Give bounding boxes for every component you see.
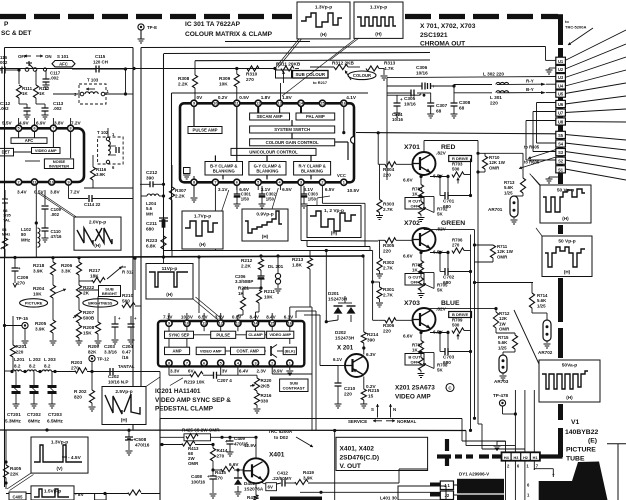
svg-text:COLOUR MATRIX & CLAMP: COLOUR MATRIX & CLAMP — [185, 31, 273, 38]
svg-text:R313: R313 — [384, 61, 396, 66]
svg-text:R222: R222 — [83, 285, 95, 290]
svg-text:R310: R310 — [246, 72, 258, 77]
svg-text:6: 6 — [236, 181, 238, 185]
svg-text:R309: R309 — [219, 76, 231, 81]
svg-text:6.6V: 6.6V — [229, 462, 239, 467]
svg-text:1.8V: 1.8V — [261, 95, 272, 100]
svg-text:D202: D202 — [335, 330, 346, 335]
svg-text:1.1Vp-p: 1.1Vp-p — [370, 5, 387, 11]
svg-text:S2: S2 — [558, 159, 564, 164]
svg-text:12: 12 — [256, 102, 260, 106]
svg-text:9: 9 — [168, 322, 170, 326]
svg-text:1: 1 — [343, 181, 345, 185]
svg-text:R419: R419 — [303, 470, 314, 475]
svg-text:X702: X702 — [404, 220, 420, 227]
svg-text:6.6V: 6.6V — [403, 334, 414, 339]
svg-text:2.3V: 2.3V — [257, 369, 267, 374]
svg-text:2K: 2K — [83, 291, 90, 296]
svg-text:R210: R210 — [122, 293, 134, 298]
svg-text:390: 390 — [367, 338, 375, 343]
svg-text:C114 22: C114 22 — [84, 202, 101, 207]
svg-text:U6: U6 — [558, 102, 564, 107]
svg-text:TUBE: TUBE — [566, 456, 585, 463]
svg-text:6: 6 — [33, 127, 35, 131]
svg-text:MH: MH — [146, 211, 153, 216]
svg-text:VIDEO AMP: VIDEO AMP — [35, 148, 57, 153]
svg-text:4.9V: 4.9V — [19, 121, 30, 126]
svg-text:220: 220 — [383, 249, 391, 254]
svg-text:PULSE AMP: PULSE AMP — [193, 128, 218, 133]
svg-text:2.0Vp-p: 2.0Vp-p — [89, 220, 106, 226]
svg-text:X701: X701 — [404, 144, 420, 151]
svg-text:IC 301 TA 7622AP: IC 301 TA 7622AP — [185, 21, 241, 28]
svg-text:220: 220 — [490, 101, 498, 106]
svg-text:VIDEO AMP SYNC SEP &: VIDEO AMP SYNC SEP & — [155, 397, 231, 404]
svg-text:680: 680 — [146, 227, 154, 232]
svg-text:R307: R307 — [175, 188, 187, 193]
svg-text:7: 7 — [214, 181, 216, 185]
svg-text:X 201: X 201 — [337, 345, 354, 352]
svg-text:270: 270 — [217, 453, 225, 458]
svg-text:P: P — [4, 21, 9, 28]
svg-text:X703: X703 — [404, 300, 420, 307]
svg-text:B DRIVE: B DRIVE — [452, 312, 469, 317]
svg-text:CONTRAST: CONTRAST — [283, 385, 306, 390]
svg-text:R217: R217 — [89, 268, 101, 273]
svg-text:BLANKING: BLANKING — [213, 168, 235, 173]
svg-text:5.3MHz: 5.3MHz — [5, 419, 22, 424]
svg-text:R305: R305 — [383, 243, 395, 248]
svg-text:BRIGHT: BRIGHT — [102, 291, 118, 296]
svg-text:6.5MHz: 6.5MHz — [47, 419, 64, 424]
svg-text:11: 11 — [202, 322, 206, 326]
svg-text:002: 002 — [0, 60, 8, 65]
svg-text:to D02: to D02 — [274, 435, 288, 440]
svg-text:10/16: 10/16 — [416, 71, 428, 76]
svg-text:UNICOLOUR CONTROL: UNICOLOUR CONTROL — [249, 149, 298, 154]
svg-text:C701: C701 — [443, 199, 455, 204]
svg-text:5.5V: 5.5V — [2, 121, 13, 126]
svg-text:C508: C508 — [135, 437, 147, 442]
svg-text:AR702: AR702 — [538, 350, 553, 355]
svg-text:5: 5 — [220, 361, 222, 365]
svg-text:C307: C307 — [436, 103, 448, 108]
svg-text:6.5V: 6.5V — [282, 187, 293, 192]
svg-text:1: 1 — [289, 361, 291, 365]
svg-text:(H): (H) — [262, 234, 269, 239]
svg-text:1K: 1K — [39, 91, 45, 96]
svg-text:C703: C703 — [443, 355, 455, 360]
svg-text:270: 270 — [17, 281, 25, 286]
svg-text:R208: R208 — [83, 325, 95, 330]
svg-text:R209: R209 — [88, 344, 99, 349]
svg-text:3: 3 — [254, 361, 256, 365]
svg-text:10K: 10K — [33, 292, 42, 297]
svg-text:11: 11 — [235, 102, 239, 106]
svg-text:X401, X402: X401, X402 — [340, 446, 375, 453]
svg-text:0.47: 0.47 — [122, 349, 131, 354]
svg-text:50Va-p: 50Va-p — [562, 363, 578, 369]
svg-text:S3: S3 — [558, 150, 564, 155]
svg-text:to R606: to R606 — [524, 160, 540, 165]
svg-text:(H): (H) — [375, 31, 382, 36]
svg-text:H3: H3 — [513, 456, 518, 460]
svg-text:12: 12 — [219, 322, 223, 326]
svg-text:BLUE: BLUE — [441, 300, 460, 307]
svg-text:220: 220 — [16, 350, 24, 355]
svg-text:500B: 500B — [83, 316, 95, 321]
svg-text:VCC: VCC — [337, 173, 346, 178]
svg-text:5K: 5K — [437, 212, 443, 217]
svg-text:R207: R207 — [83, 310, 95, 315]
svg-text:T 102: T 102 — [97, 130, 109, 135]
svg-text:5: 5 — [18, 127, 20, 131]
svg-text:R415: R415 — [215, 470, 226, 475]
svg-text:8: 8 — [70, 127, 72, 131]
svg-text:7.2V: 7.2V — [70, 190, 81, 195]
svg-text:2: 2 — [321, 181, 323, 185]
svg-text:H1: H1 — [533, 456, 538, 460]
svg-text:2SD476(C.D): 2SD476(C.D) — [340, 455, 380, 462]
svg-text:DET: DET — [2, 150, 11, 155]
svg-text:(H): (H) — [566, 395, 573, 400]
svg-text:PICTURE: PICTURE — [566, 447, 596, 454]
svg-text:3.9K: 3.9K — [33, 269, 44, 274]
svg-text:.002: .002 — [53, 106, 62, 111]
svg-text:6: 6 — [203, 361, 205, 365]
svg-text:MHz: MHz — [21, 237, 31, 242]
svg-text:S4: S4 — [558, 142, 564, 147]
svg-text:AFC: AFC — [25, 138, 34, 143]
svg-text:(E): (E) — [588, 438, 597, 445]
svg-text:R205: R205 — [35, 321, 47, 326]
svg-text:470/16: 470/16 — [135, 443, 150, 448]
svg-text:(H): (H) — [121, 418, 128, 423]
svg-text:120 CH: 120 CH — [93, 60, 108, 65]
svg-text:4.1V: 4.1V — [346, 95, 357, 100]
svg-text:SYNC SEP: SYNC SEP — [169, 332, 190, 337]
svg-text:(BLK): (BLK) — [285, 349, 296, 353]
svg-text:S: S — [371, 407, 374, 412]
svg-text:8.4V: 8.4V — [266, 315, 276, 320]
svg-text:1/25: 1/25 — [537, 303, 546, 308]
svg-text:270: 270 — [246, 77, 254, 82]
svg-text:V. OUT: V. OUT — [340, 463, 361, 470]
svg-text:SECAM AMP: SECAM AMP — [256, 114, 282, 119]
svg-text:RED: RED — [441, 144, 455, 151]
svg-text:L 202: L 202 — [29, 357, 41, 362]
svg-text:0.5V: 0.5V — [34, 190, 45, 195]
svg-text:330: 330 — [261, 398, 269, 403]
svg-text:500: 500 — [452, 167, 460, 172]
svg-text:C702: C702 — [443, 275, 455, 280]
svg-text:R212: R212 — [241, 258, 253, 263]
svg-text:R301: R301 — [383, 287, 395, 292]
svg-text:C209: C209 — [17, 275, 29, 280]
svg-text:15: 15 — [320, 102, 324, 106]
svg-text:(H): (H) — [94, 243, 101, 248]
svg-text:R211: R211 — [264, 289, 275, 294]
svg-text:8.2: 8.2 — [29, 364, 36, 369]
svg-text:S5: S5 — [558, 133, 564, 138]
svg-text:R216: R216 — [261, 393, 272, 398]
svg-text:100/16: 100/16 — [191, 479, 205, 484]
svg-text:TP-15: TP-15 — [16, 316, 29, 321]
svg-text:+: + — [432, 84, 435, 89]
svg-text:390: 390 — [146, 176, 154, 181]
svg-text:3.8V: 3.8V — [50, 190, 61, 195]
svg-text:3: 3 — [300, 181, 302, 185]
svg-text:BLANKING: BLANKING — [301, 168, 323, 173]
svg-text:2KB: 2KB — [261, 383, 271, 388]
svg-text:12.9V: 12.9V — [244, 443, 257, 448]
svg-text:R303: R303 — [383, 202, 395, 207]
svg-text:(H): (H) — [166, 292, 173, 297]
svg-text:/16: /16 — [122, 355, 129, 360]
svg-text:1K: 1K — [412, 268, 418, 273]
svg-text:.82V: .82V — [436, 151, 447, 157]
svg-text:R304: R304 — [383, 167, 395, 172]
svg-text:0V: 0V — [197, 95, 204, 100]
svg-text:U7: U7 — [558, 111, 564, 116]
svg-text:10K: 10K — [219, 82, 228, 87]
svg-text:R414: R414 — [217, 448, 228, 453]
svg-text:10/16: 10/16 — [392, 117, 404, 122]
svg-text:16: 16 — [288, 322, 292, 326]
svg-text:11: 11 — [32, 180, 36, 184]
svg-text:TP-12: TP-12 — [97, 357, 110, 362]
svg-text:6.6V: 6.6V — [403, 254, 414, 259]
svg-text:U8: U8 — [558, 120, 564, 125]
svg-text:10: 10 — [185, 322, 189, 326]
svg-text:PICTURE: PICTURE — [25, 301, 43, 306]
svg-text:680: 680 — [443, 360, 451, 365]
svg-text:3.3/16: 3.3/16 — [104, 349, 117, 354]
svg-text:DY1 A29906-V: DY1 A29906-V — [459, 472, 489, 477]
svg-text:OFF: OFF — [411, 203, 420, 208]
svg-text:C405: C405 — [12, 495, 23, 500]
svg-text:16: 16 — [342, 102, 346, 106]
svg-text:8: 8 — [168, 361, 170, 365]
svg-text:INVERTER: INVERTER — [49, 164, 69, 169]
svg-text:500: 500 — [452, 323, 460, 328]
svg-text:.22/50MY: .22/50MY — [272, 476, 292, 481]
svg-text:TANTAL: TANTAL — [118, 364, 135, 369]
svg-text:5: 5 — [257, 181, 259, 185]
svg-text:10/16: 10/16 — [404, 102, 416, 107]
svg-text:CLAMP: CLAMP — [248, 332, 263, 337]
svg-text:6.8K: 6.8K — [146, 244, 157, 249]
svg-text:140BYB22: 140BYB22 — [565, 429, 598, 436]
svg-text:5K: 5K — [437, 288, 443, 293]
svg-text:B-Y: B-Y — [526, 87, 534, 92]
svg-text:50 Vp-p: 50 Vp-p — [558, 239, 575, 245]
svg-text:22K: 22K — [10, 472, 19, 477]
svg-text:COLOUR GAIN CONTROL: COLOUR GAIN CONTROL — [266, 140, 319, 145]
svg-text:TRC 5200A: TRC 5200A — [268, 429, 293, 434]
svg-text:R 312: R 312 — [122, 270, 134, 275]
svg-text:TAL: TAL — [3, 217, 11, 222]
svg-text:2: 2 — [271, 361, 273, 365]
svg-text:1.3Vp-p: 1.3Vp-p — [315, 5, 332, 11]
svg-text:SUB COLOUR: SUB COLOUR — [295, 72, 325, 77]
svg-text:C202: C202 — [108, 374, 119, 379]
svg-text:6.5V: 6.5V — [433, 174, 444, 179]
svg-text:2.7K: 2.7K — [383, 293, 394, 298]
svg-text:(H): (H) — [331, 231, 338, 236]
svg-text:82K: 82K — [88, 349, 97, 354]
svg-text:R306: R306 — [383, 323, 395, 328]
svg-text:R223: R223 — [146, 238, 158, 243]
svg-text:13: 13 — [277, 102, 281, 106]
svg-text:- 4.5V: - 4.5V — [68, 455, 82, 461]
svg-text:8: 8 — [193, 181, 195, 185]
svg-text:CT202: CT202 — [27, 412, 41, 417]
svg-text:L 301: L 301 — [490, 95, 502, 100]
svg-text:2.7K: 2.7K — [383, 207, 394, 212]
svg-text:PULSE: PULSE — [216, 332, 230, 337]
svg-text:C203: C203 — [104, 344, 115, 349]
svg-text:.002: .002 — [0, 106, 9, 111]
svg-text:2.5Vp-p: 2.5Vp-p — [115, 389, 132, 395]
svg-text:SERVICE: SERVICE — [348, 419, 367, 424]
svg-text:H2: H2 — [523, 456, 528, 460]
svg-text:1K: 1K — [412, 348, 418, 353]
svg-text:R214: R214 — [367, 332, 379, 337]
svg-text:15: 15 — [270, 322, 274, 326]
svg-text:3.3/50BP: 3.3/50BP — [235, 279, 253, 284]
svg-text:8.2: 8.2 — [44, 364, 51, 369]
svg-text:1S2473H: 1S2473H — [335, 335, 355, 340]
svg-text:VIDEO AMP: VIDEO AMP — [200, 348, 222, 353]
svg-text:1/50: 1/50 — [308, 196, 317, 201]
svg-text:3.3V: 3.3V — [170, 369, 180, 374]
svg-text:10.3V: 10.3V — [181, 315, 194, 320]
svg-text:6.9V: 6.9V — [36, 121, 47, 126]
svg-text:TRC-5200A: TRC-5200A — [565, 25, 586, 30]
svg-text:TP-478: TP-478 — [493, 393, 509, 398]
svg-text:3.9K: 3.9K — [35, 327, 46, 332]
svg-text:C409: C409 — [234, 436, 245, 441]
svg-text:R220: R220 — [261, 378, 272, 383]
svg-text:1K: 1K — [238, 291, 245, 296]
svg-text:2.7K: 2.7K — [383, 266, 394, 271]
svg-text:C306: C306 — [416, 65, 428, 70]
svg-text:OMR: OMR — [499, 327, 510, 332]
svg-text:2SC1921: 2SC1921 — [420, 32, 448, 39]
svg-text:S 101: S 101 — [57, 54, 69, 59]
svg-text:.002: .002 — [50, 76, 59, 81]
svg-text:GREEN: GREEN — [441, 220, 465, 227]
svg-text:R308: R308 — [178, 76, 190, 81]
svg-text:220: 220 — [383, 329, 391, 334]
svg-text:6MHz: 6MHz — [28, 419, 41, 424]
svg-text:(H): (H) — [320, 32, 327, 37]
svg-text:220: 220 — [344, 392, 352, 397]
svg-text:C408: C408 — [191, 474, 202, 479]
svg-text:9: 9 — [67, 180, 69, 184]
svg-text:to R605: to R605 — [524, 145, 540, 150]
svg-text:6.5V: 6.5V — [198, 315, 208, 320]
svg-text:3.3K: 3.3K — [61, 269, 72, 274]
svg-text:U3: U3 — [558, 75, 564, 80]
svg-text:8.4V: 8.4V — [250, 315, 260, 320]
svg-text:4.7K: 4.7K — [384, 66, 395, 71]
svg-text:D201: D201 — [328, 291, 339, 296]
svg-text:6.5V: 6.5V — [325, 187, 336, 192]
svg-text:6V: 6V — [188, 369, 195, 374]
svg-text:L401 30: L401 30 — [380, 496, 397, 500]
svg-text:X201 2SA673: X201 2SA673 — [395, 385, 435, 392]
svg-text:T 103: T 103 — [87, 78, 99, 83]
svg-text:2.2K: 2.2K — [241, 264, 252, 269]
svg-text:SYSTEM SWITCH: SYSTEM SWITCH — [274, 127, 310, 132]
svg-text:R312 2KB: R312 2KB — [332, 61, 355, 66]
svg-text:+: + — [400, 97, 403, 102]
svg-text:U1: U1 — [558, 59, 564, 64]
svg-text:C305: C305 — [404, 96, 416, 101]
svg-text:47/16: 47/16 — [51, 234, 63, 239]
svg-text:R206: R206 — [61, 263, 73, 268]
svg-text:SC & DET: SC & DET — [1, 30, 31, 37]
svg-text:R203: R203 — [71, 360, 83, 365]
svg-text:AR703: AR703 — [494, 379, 509, 384]
svg-text:10K: 10K — [264, 295, 273, 300]
svg-text:R215: R215 — [368, 388, 380, 393]
svg-text:C204: C204 — [122, 344, 133, 349]
svg-text:R218: R218 — [33, 263, 45, 268]
svg-text:S1: S1 — [558, 167, 564, 172]
svg-text:NORMAL: NORMAL — [397, 419, 417, 424]
svg-text:R201: R201 — [16, 344, 28, 349]
svg-text:1K: 1K — [412, 192, 418, 197]
svg-text:J 1: J 1 — [444, 483, 450, 488]
svg-text:PAL AMP: PAL AMP — [306, 114, 325, 119]
svg-text:AR701: AR701 — [488, 207, 503, 212]
svg-text:2.2K: 2.2K — [175, 194, 186, 199]
svg-text:.82V: .82V — [436, 307, 447, 313]
svg-text:6V: 6V — [268, 485, 273, 490]
svg-text:R 202: R 202 — [74, 389, 87, 394]
svg-text:3V: 3V — [222, 369, 229, 374]
svg-text:R405: R405 — [10, 466, 22, 471]
svg-text:+: + — [4, 201, 7, 206]
svg-text:2.2K: 2.2K — [178, 82, 189, 87]
svg-text:7.1V: 7.1V — [163, 315, 173, 320]
svg-text:0.5V: 0.5V — [239, 95, 250, 100]
svg-text:N: N — [393, 407, 396, 412]
svg-text:1/25: 1/25 — [504, 190, 513, 195]
svg-text:8.9V: 8.9V — [273, 369, 283, 374]
svg-text:220: 220 — [383, 173, 391, 178]
svg-text:7: 7 — [52, 127, 54, 131]
svg-text:3.1V: 3.1V — [218, 187, 229, 192]
svg-text:15: 15 — [368, 394, 374, 399]
svg-text:(H): (H) — [562, 216, 569, 221]
svg-text:68: 68 — [459, 106, 465, 111]
svg-text:DL 201: DL 201 — [268, 264, 284, 269]
svg-text:R204: R204 — [33, 286, 45, 291]
svg-text:CONT. AMP: CONT. AMP — [236, 348, 259, 353]
svg-text:AFC: AFC — [59, 62, 68, 67]
svg-text:820: 820 — [74, 395, 82, 400]
svg-text:11Vp-p: 11Vp-p — [162, 266, 178, 272]
svg-text:10: 10 — [213, 102, 217, 106]
svg-text:(V): (V) — [56, 466, 63, 471]
svg-text:U2: U2 — [558, 67, 564, 72]
svg-text:68: 68 — [436, 109, 442, 114]
svg-text:(H): (H) — [199, 242, 206, 247]
